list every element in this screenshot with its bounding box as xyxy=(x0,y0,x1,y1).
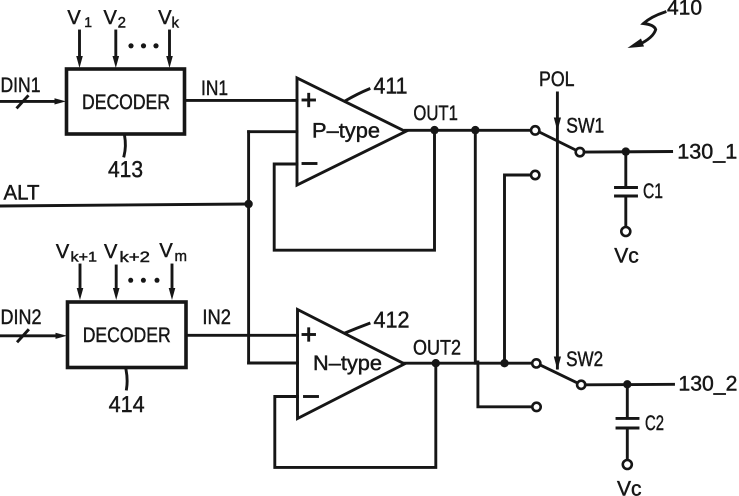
svg-text:DECODER: DECODER xyxy=(83,324,171,347)
svg-text:130_2: 130_2 xyxy=(678,373,737,396)
svg-text:P–type: P–type xyxy=(312,120,380,143)
svg-text:413: 413 xyxy=(108,156,143,182)
svg-text:k+2: k+2 xyxy=(120,249,151,266)
svg-text:410: 410 xyxy=(667,0,702,20)
svg-text:IN1: IN1 xyxy=(201,77,228,100)
svg-text:OUT2: OUT2 xyxy=(413,336,461,359)
svg-text:2: 2 xyxy=(118,15,126,32)
svg-text:DIN2: DIN2 xyxy=(1,306,42,329)
svg-text:C1: C1 xyxy=(643,180,663,203)
svg-text:N–type: N–type xyxy=(313,352,382,375)
svg-text:V: V xyxy=(56,241,70,263)
svg-text:C2: C2 xyxy=(645,412,664,435)
svg-text:414: 414 xyxy=(109,391,145,417)
svg-text:V: V xyxy=(67,7,81,29)
svg-text:k: k xyxy=(172,15,180,32)
svg-text:m: m xyxy=(175,248,188,265)
svg-text:Vc: Vc xyxy=(617,478,642,496)
svg-text:OUT1: OUT1 xyxy=(413,102,458,125)
svg-text:411: 411 xyxy=(374,73,408,99)
svg-text:V: V xyxy=(104,7,118,29)
svg-text:130_1: 130_1 xyxy=(677,141,737,164)
svg-text:DIN1: DIN1 xyxy=(1,74,41,97)
svg-text:V: V xyxy=(158,7,172,29)
svg-text:IN2: IN2 xyxy=(202,306,231,329)
svg-text:V: V xyxy=(159,240,173,262)
svg-text:SW2: SW2 xyxy=(566,348,603,371)
svg-text:1: 1 xyxy=(84,14,92,30)
svg-text:SW1: SW1 xyxy=(566,115,604,138)
svg-text:Vc: Vc xyxy=(614,244,639,267)
svg-text:412: 412 xyxy=(374,307,410,333)
svg-text:k+1: k+1 xyxy=(71,248,98,264)
svg-text:POL: POL xyxy=(539,68,575,91)
svg-text:V: V xyxy=(104,241,118,263)
svg-text:ALT: ALT xyxy=(4,182,40,205)
svg-text:DECODER: DECODER xyxy=(82,91,170,114)
